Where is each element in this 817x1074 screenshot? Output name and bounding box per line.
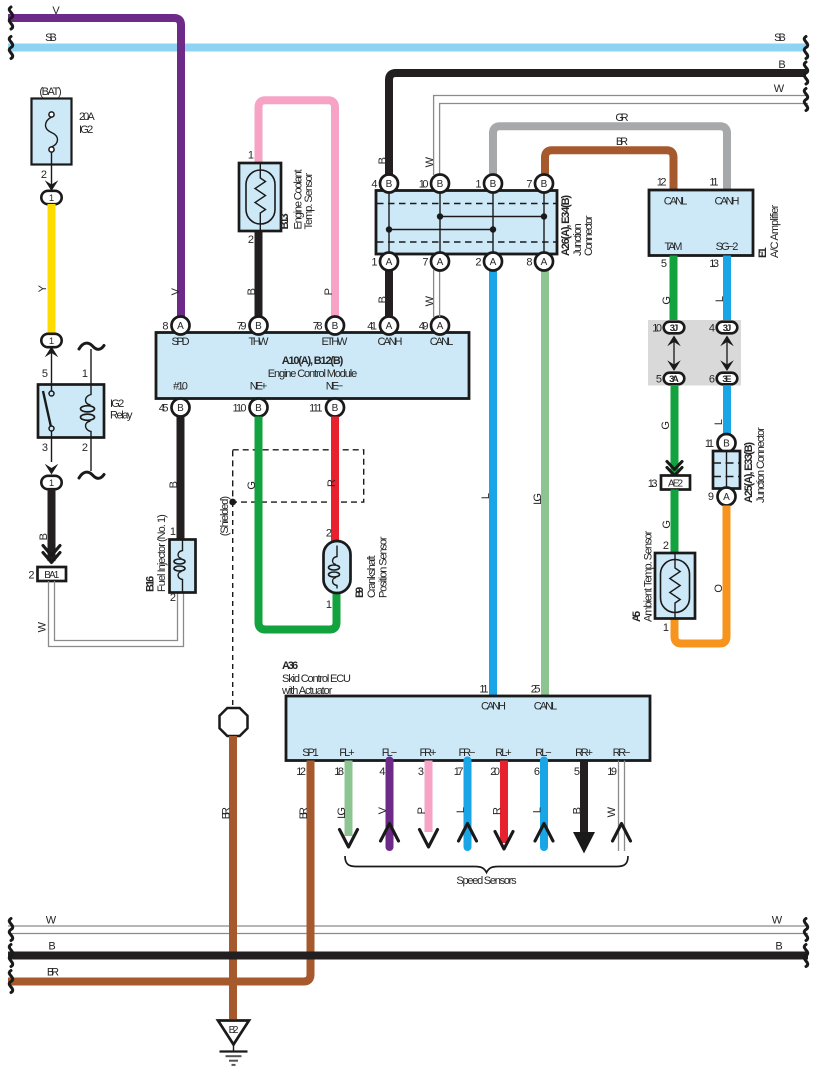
wire G TAM down: [670, 256, 678, 322]
shield junction dot: [229, 499, 236, 506]
svg-text:W: W: [606, 806, 618, 817]
svg-text:CANL: CANL: [534, 701, 558, 713]
svg-text:W: W: [46, 915, 57, 927]
svg-text:45: 45: [159, 403, 169, 415]
svg-text:THW: THW: [249, 336, 270, 348]
svg-text:B: B: [255, 403, 262, 414]
wire G below block: [671, 386, 679, 476]
svg-text:6: 6: [709, 374, 715, 386]
break B right: [804, 62, 807, 84]
svg-text:79: 79: [237, 321, 247, 333]
double chevron arrow: [43, 546, 60, 556]
svg-text:Relay: Relay: [110, 410, 133, 422]
svg-text:A/C Amplifier: A/C Amplifier: [769, 204, 781, 258]
svg-text:2: 2: [248, 234, 254, 246]
ECM A10(A) B12(B) box: [156, 333, 469, 399]
wire L SG-2 down: [723, 256, 731, 322]
svg-text:NE+: NE+: [250, 381, 267, 393]
svg-text:Position Sensor: Position Sensor: [378, 536, 390, 598]
svg-text:L: L: [714, 296, 726, 302]
wire L to A36 CANH: [489, 270, 497, 696]
svg-text:TAM: TAM: [665, 241, 683, 253]
svg-text:8: 8: [162, 321, 168, 333]
svg-text:B: B: [255, 321, 262, 332]
svg-text:IG2: IG2: [79, 124, 93, 136]
svg-text:B: B: [38, 533, 50, 540]
svg-text:111: 111: [309, 403, 322, 415]
bus B: [389, 73, 806, 175]
svg-text:L: L: [480, 493, 492, 499]
wire G NE+: [259, 417, 337, 630]
svg-text:18: 18: [334, 766, 344, 778]
svg-text:20: 20: [490, 766, 500, 778]
svg-text:R: R: [326, 479, 338, 487]
pickup coil: [333, 546, 337, 565]
arrow double-head left: [673, 341, 675, 365]
svg-text:P: P: [323, 288, 335, 295]
svg-text:W: W: [774, 83, 785, 95]
svg-text:Fuel Injector (No. 1): Fuel Injector (No. 1): [156, 514, 168, 592]
svg-text:A: A: [437, 257, 444, 268]
svg-text:CANH: CANH: [481, 701, 506, 713]
wire V FL-: [386, 761, 394, 848]
wire B from B13 pin2: [255, 231, 263, 317]
svg-text:A10(A), B12(B): A10(A), B12(B): [282, 355, 344, 367]
svg-text:Temp. Sensor: Temp. Sensor: [303, 172, 315, 229]
svg-text:W: W: [772, 915, 783, 927]
wire L FR-: [464, 761, 472, 848]
arrow double-head right: [726, 341, 728, 365]
svg-text:110: 110: [233, 403, 247, 415]
svg-text:W: W: [37, 621, 49, 632]
svg-text:8: 8: [526, 257, 532, 269]
svg-text:B: B: [386, 179, 393, 190]
svg-text:41: 41: [367, 321, 377, 333]
svg-text:Speed Sensors: Speed Sensors: [456, 875, 517, 887]
brace speed sensors: [345, 856, 628, 873]
svg-text:78: 78: [313, 321, 323, 333]
svg-text:BA1: BA1: [44, 570, 60, 581]
svg-text:B: B: [572, 807, 584, 814]
svg-text:FR+: FR+: [420, 747, 437, 759]
svg-text:10: 10: [652, 323, 662, 335]
svg-text:9: 9: [708, 491, 714, 503]
svg-text:49: 49: [419, 321, 429, 333]
break lower (tilde): [79, 472, 104, 478]
ground bars: [220, 1050, 248, 1052]
wire fuse to connector: [51, 152, 53, 185]
wire V: [8, 18, 181, 317]
svg-text:3A: 3A: [669, 374, 679, 385]
inner vertical lines: [389, 191, 544, 255]
svg-text:B16: B16: [145, 576, 157, 592]
svg-text:V: V: [377, 806, 389, 814]
svg-text:G: G: [661, 520, 673, 529]
svg-text:4: 4: [379, 766, 385, 778]
wire LG to A36 CANL: [541, 270, 549, 696]
inner bus line 2: [389, 229, 493, 231]
sensor B13 box: [239, 163, 281, 231]
svg-text:CANH: CANH: [715, 196, 740, 208]
svg-text:2: 2: [82, 442, 88, 454]
relay IG2 box: [38, 385, 104, 438]
svg-text:IG2: IG2: [110, 398, 124, 410]
skid control ECU A36 box: [286, 696, 650, 761]
svg-text:3: 3: [42, 442, 48, 454]
shield octagon: [220, 708, 248, 736]
svg-text:A26(A), E34(B): A26(A), E34(B): [560, 195, 572, 256]
break BR bottom left: [9, 971, 12, 993]
svg-text:17: 17: [454, 766, 464, 778]
sensor A5 box: [655, 553, 695, 619]
A/C amplifier E1 box: [649, 190, 753, 256]
connector 1 (third): [41, 476, 61, 489]
wire R RL+: [500, 761, 508, 844]
svg-text:B: B: [377, 157, 389, 164]
svg-text:RR−: RR−: [613, 747, 631, 759]
svg-text:2: 2: [326, 528, 332, 540]
svg-text:1: 1: [49, 336, 54, 347]
svg-text:B: B: [775, 941, 782, 953]
wire L to A25: [723, 386, 731, 435]
arrow up FR-: [459, 824, 477, 842]
svg-text:2: 2: [28, 570, 34, 582]
svg-text:CANL: CANL: [430, 336, 454, 348]
svg-text:1: 1: [170, 526, 176, 538]
svg-text:13: 13: [648, 478, 658, 490]
wire relay pin3 down: [51, 438, 53, 463]
svg-text:4: 4: [709, 323, 715, 335]
arrow down FR+: [420, 830, 438, 848]
injector coil: [178, 540, 182, 559]
svg-text:3E: 3E: [722, 374, 731, 385]
thermistor element: [246, 170, 275, 224]
break upper (tilde): [79, 343, 104, 349]
svg-text:G: G: [246, 481, 258, 490]
injector B16 box: [170, 540, 196, 593]
svg-text:V: V: [170, 287, 182, 295]
wire W RR- (double line): [619, 761, 625, 852]
svg-text:3J: 3J: [670, 323, 679, 334]
svg-text:12: 12: [657, 177, 667, 189]
svg-text:RL+: RL+: [495, 747, 511, 759]
svg-text:3: 3: [418, 766, 424, 778]
arrow down: [45, 180, 59, 191]
svg-text:B: B: [490, 179, 497, 190]
connector 1 (second): [41, 334, 61, 347]
svg-text:2: 2: [170, 592, 176, 604]
wire W junction to ECM (double line): [433, 270, 435, 317]
svg-text:BR: BR: [298, 807, 310, 819]
svg-text:A36: A36: [282, 660, 298, 672]
wire P FR+: [425, 761, 433, 833]
svg-text:SP1: SP1: [302, 747, 319, 759]
break W right: [804, 89, 807, 111]
svg-text:1: 1: [475, 179, 481, 191]
svg-text:B: B: [778, 59, 785, 71]
svg-text:Connector: Connector: [583, 215, 595, 256]
bus SB: [8, 44, 806, 52]
svg-text:NE−: NE−: [326, 381, 343, 393]
svg-text:11: 11: [709, 177, 718, 189]
svg-text:11: 11: [705, 438, 714, 450]
svg-text:A: A: [723, 492, 730, 503]
inner bus line 1: [440, 216, 544, 218]
svg-text:1: 1: [49, 478, 54, 489]
wire L RL-: [540, 761, 548, 848]
wire B junction to ECM: [385, 270, 393, 317]
svg-text:(Shielded): (Shielded): [219, 496, 231, 536]
svg-text:LG: LG: [336, 807, 348, 819]
wire GR: [493, 126, 727, 190]
wire BR from SP1: [8, 761, 311, 982]
wire W from BA1 to injector (double line): [49, 581, 184, 647]
svg-text:A: A: [541, 257, 548, 268]
svg-text:B: B: [437, 179, 444, 190]
svg-text:R: R: [492, 807, 504, 815]
svg-text:B2: B2: [229, 1025, 239, 1036]
svg-text:AE2: AE2: [668, 479, 684, 490]
coil line with breaks: [90, 349, 92, 471]
junction connector A25(A) E33(B) box: [713, 451, 740, 489]
wire BR to E1: [545, 150, 674, 190]
svg-text:A25(A), E33(B): A25(A), E33(B): [743, 442, 755, 503]
svg-text:L: L: [532, 807, 544, 813]
fuse IG2 20A box: [32, 99, 72, 165]
svg-text:1: 1: [248, 150, 254, 162]
svg-text:O: O: [713, 584, 725, 593]
break W bottom right: [804, 919, 807, 941]
break B bottom left: [9, 945, 12, 967]
svg-text:5: 5: [42, 368, 48, 380]
svg-text:B: B: [723, 439, 730, 450]
svg-text:E1: E1: [757, 247, 769, 258]
svg-text:CANL: CANL: [664, 196, 688, 208]
svg-text:B13: B13: [279, 213, 291, 229]
svg-text:1: 1: [49, 193, 54, 204]
svg-text:2: 2: [663, 540, 669, 552]
wire to relay pin 5: [51, 353, 53, 385]
svg-text:CANH: CANH: [378, 336, 403, 348]
svg-text:19: 19: [607, 766, 617, 778]
svg-text:1: 1: [371, 257, 377, 269]
shield dashed box: [233, 450, 364, 502]
svg-text:20A: 20A: [79, 111, 95, 123]
svg-text:RR+: RR+: [575, 747, 593, 759]
svg-text:Skid Control ECU: Skid Control ECU: [282, 673, 351, 685]
wire P (pink): [259, 100, 336, 316]
break B bottom right: [804, 945, 807, 967]
svg-text:B: B: [332, 403, 339, 414]
break W bottom left: [9, 919, 12, 941]
svg-text:SB: SB: [45, 32, 57, 44]
svg-text:FL+: FL+: [339, 747, 354, 759]
svg-text:12: 12: [296, 766, 306, 778]
svg-text:B: B: [332, 321, 339, 332]
sensor B9 body: [324, 541, 351, 593]
svg-text:5: 5: [574, 766, 580, 778]
relay coil: [85, 385, 91, 406]
svg-text:G: G: [661, 296, 673, 305]
svg-text:SPD: SPD: [171, 336, 189, 348]
svg-text:6: 6: [534, 766, 540, 778]
svg-text:13: 13: [709, 258, 719, 270]
svg-text:4: 4: [371, 179, 377, 191]
svg-text:3J: 3J: [723, 323, 732, 334]
arrow up FL-: [381, 824, 399, 842]
svg-text:Crankshaft: Crankshaft: [366, 555, 378, 598]
svg-text:10: 10: [419, 179, 429, 191]
connector AE2: [661, 476, 690, 490]
svg-text:P: P: [416, 807, 428, 814]
svg-text:1: 1: [326, 599, 332, 611]
svg-text:B9: B9: [354, 587, 366, 598]
arrow down FL+: [340, 830, 358, 848]
svg-text:SB: SB: [774, 32, 786, 44]
double chevron arrow: [667, 462, 682, 470]
svg-text:BR: BR: [47, 967, 59, 979]
connector BA1: [38, 567, 67, 581]
svg-text:V: V: [52, 5, 60, 17]
svg-text:ETHW: ETHW: [322, 336, 349, 348]
svg-text:Junction Connector: Junction Connector: [755, 427, 767, 503]
inner dashed lines: [377, 204, 556, 243]
svg-text:B: B: [48, 941, 55, 953]
svg-text:1: 1: [663, 622, 669, 634]
wire LG FL+: [345, 761, 353, 837]
arrow down: [45, 464, 59, 475]
svg-text:A: A: [386, 321, 393, 332]
svg-text:25: 25: [531, 684, 541, 696]
svg-text:2: 2: [475, 257, 481, 269]
bus W bottom (double line): [8, 925, 808, 927]
svg-text:1: 1: [82, 368, 88, 380]
svg-text:#10: #10: [173, 381, 188, 393]
svg-text:W: W: [424, 295, 436, 306]
thermistor element: [661, 560, 690, 613]
svg-text:A: A: [437, 321, 444, 332]
ground stem: [233, 1045, 235, 1052]
wire B from ECM #10: [177, 417, 185, 541]
svg-text:A: A: [490, 257, 497, 268]
svg-text:W: W: [424, 156, 436, 167]
break SB right: [804, 37, 807, 59]
svg-text:SG−2: SG−2: [716, 241, 739, 253]
svg-text:A: A: [386, 257, 393, 268]
arrow up RR-: [613, 824, 631, 842]
arrow solid down RR+: [573, 832, 595, 854]
svg-text:7: 7: [526, 179, 532, 191]
svg-text:BR: BR: [616, 136, 628, 148]
svg-text:GR: GR: [615, 112, 628, 124]
svg-text:L: L: [713, 419, 725, 425]
connector 1 (upper): [41, 191, 61, 204]
bus B bottom: [8, 952, 808, 960]
svg-text:B: B: [177, 403, 184, 414]
svg-text:B: B: [246, 288, 258, 295]
wire B: [48, 489, 56, 561]
wire G to A5: [671, 490, 679, 554]
svg-text:Ambient Temp. Sensor: Ambient Temp. Sensor: [643, 530, 655, 622]
fuse element: [46, 117, 58, 147]
svg-text:B: B: [541, 179, 548, 190]
svg-text:A: A: [177, 321, 184, 332]
svg-text:Y: Y: [37, 284, 49, 292]
svg-text:L: L: [455, 807, 467, 813]
break V left: [9, 7, 12, 29]
arrow up RL-: [535, 824, 553, 842]
svg-text:Engine Control Module: Engine Control Module: [268, 368, 358, 380]
wire O orange: [675, 506, 727, 644]
junction connector A26(A) E34(B) box: [376, 191, 557, 255]
svg-text:5: 5: [656, 374, 662, 386]
wire BR from shield octagon to B2: [229, 736, 237, 1019]
svg-text:11: 11: [479, 684, 488, 696]
svg-text:A5: A5: [631, 611, 643, 622]
bus W (double line): [434, 96, 808, 176]
arrow down RL+: [495, 832, 513, 850]
wire B RR+: [580, 761, 588, 835]
wire R NE-: [331, 417, 339, 543]
arrow up into relay line: [45, 347, 59, 358]
relay switch: [51, 385, 53, 392]
svg-text:BR: BR: [221, 807, 233, 819]
ground B2 triangle: [218, 1021, 249, 1045]
shield dashed drain wire: [232, 502, 234, 707]
grey connector block: [648, 320, 741, 386]
svg-text:G: G: [660, 421, 672, 430]
break SB left: [9, 37, 12, 59]
svg-text:7: 7: [422, 257, 428, 269]
svg-text:B: B: [168, 481, 180, 488]
svg-text:B: B: [377, 296, 389, 303]
svg-text:5: 5: [661, 258, 667, 270]
svg-text:LG: LG: [532, 493, 544, 505]
svg-text:2: 2: [41, 169, 47, 181]
wire Y: [48, 204, 56, 334]
svg-text:(BAT): (BAT): [39, 86, 61, 98]
